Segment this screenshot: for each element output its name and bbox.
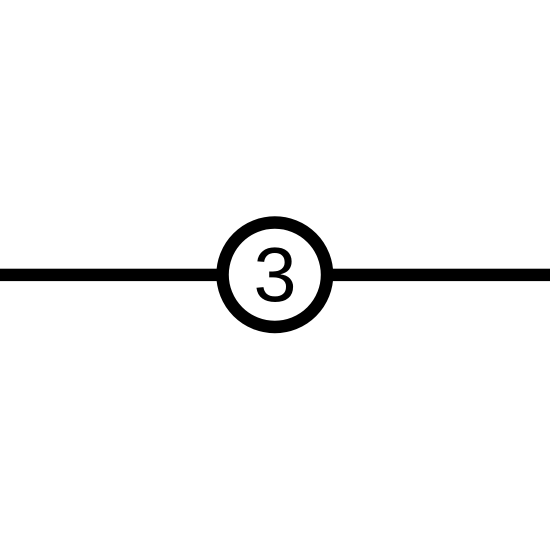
svg-text:3: 3 [254, 233, 297, 319]
node 3 (circled terminal / connection point) [223, 223, 328, 328]
wire (horizontal net, left segment to right segment) [0, 269, 550, 281]
